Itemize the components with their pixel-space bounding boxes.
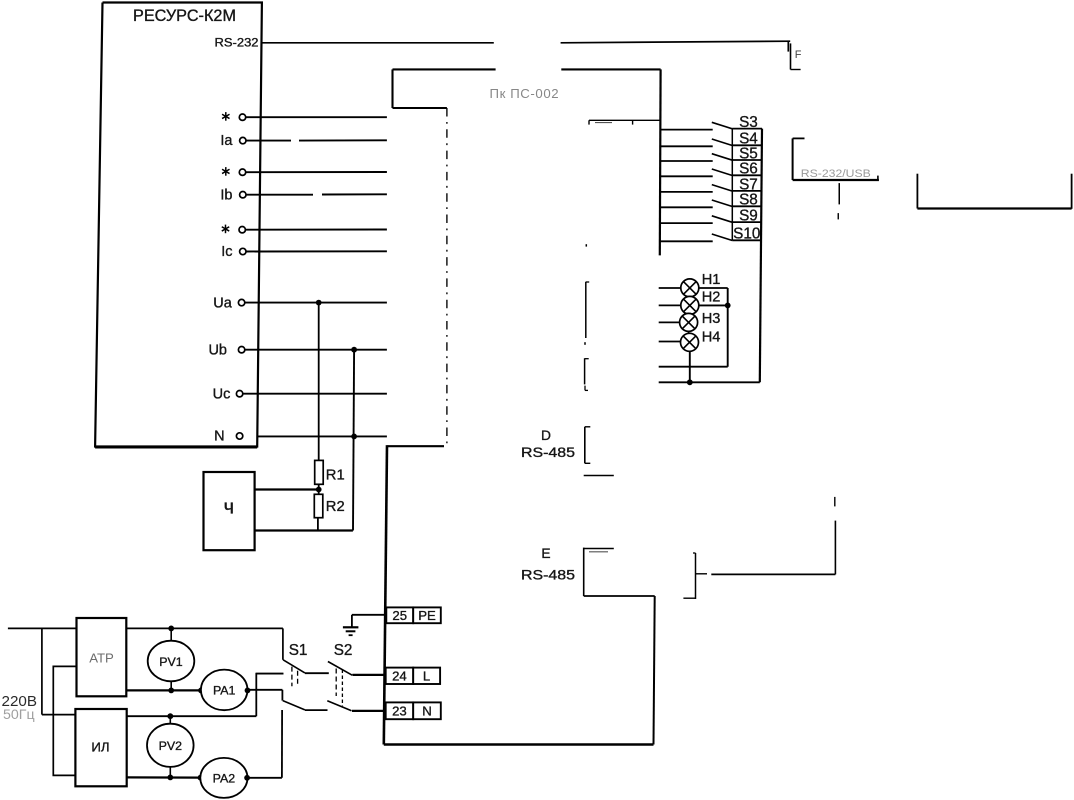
wire riser x=835 [834,497,837,575]
switch S3 [661,114,763,131]
node PA1 right [245,688,251,694]
svg-text:S6: S6 [739,161,758,178]
switch S9 [661,206,763,224]
pin Ib [220,188,246,204]
wire lamp return lower [659,381,760,383]
svg-text:RS-232/USB: RS-232/USB [801,168,871,180]
pin * (Ic marked) [222,225,246,234]
svg-text:L: L [423,669,430,684]
switch S1 [256,628,329,710]
wire lamp H3 feed [659,321,680,323]
wire S2 to N terminal [352,710,386,712]
svg-text:E: E [541,546,550,561]
wire lamp H1 feed [659,287,681,289]
voltmeter PV2 [147,716,194,777]
svg-text:24: 24 [392,669,407,684]
svg-text:H4: H4 [702,330,721,346]
net 220В 50Гц [2,693,37,723]
wire H4 down [687,351,693,385]
device open box (PC, outline partial) [917,174,1071,209]
resistor R2 [314,494,344,517]
wire lamp return upper [659,366,728,368]
svg-text:H3: H3 [702,311,721,327]
wire H3-H4 link [688,331,690,333]
wire Ia [246,139,387,141]
lamp H2 [681,289,721,314]
svg-text:PV2: PV2 [159,739,183,753]
device ИЛ (load) [75,709,126,786]
pin Ub [208,343,244,359]
svg-text:РЕСУРС-К2М: РЕСУРС-К2М [133,7,236,25]
device A1 РЕСУРС-К2М (meter under test) [95,3,262,448]
svg-text:Пк ПС-002: Пк ПС-002 [490,86,560,101]
wire RS-232 [262,41,790,43]
voltmeter PV1 [148,628,195,690]
switch S8 [661,191,763,209]
wire S2 to L terminal [352,674,385,676]
svg-text:25: 25 [392,608,407,623]
wire stub under D [584,475,614,477]
node Ub-rail junction [351,347,357,353]
wire R2 bottom [317,518,319,531]
wire Ic [246,250,387,252]
terminal 24 L [386,668,440,684]
wire ИЛ bottom output [127,776,201,778]
lamp H4 [681,330,721,352]
wire Ua [245,302,387,304]
pin N [214,429,243,445]
svg-text:Ia: Ia [220,133,233,149]
wire S1 left branch [256,674,283,717]
svg-text:S2: S2 [334,642,353,659]
svg-text:D: D [541,428,551,443]
connector bracket right of E [683,553,707,599]
switch S5 [661,145,763,162]
wire switch common bus [760,129,762,383]
switch S7 [661,175,763,193]
node Ua-R1 junction [316,300,322,306]
pin Ic [221,244,246,260]
pin * (Ib marked) [222,167,246,176]
node R1-R2 junction [316,484,322,494]
svg-text:S3: S3 [739,114,758,131]
svg-text:S10: S10 [733,226,760,243]
svg-text:Ib: Ib [220,188,232,204]
partition dash line x=447 [446,108,448,445]
svg-text:H2: H2 [702,289,721,305]
connector E RS-485 [521,546,614,596]
node PA1 left [198,688,204,694]
ground [343,615,386,635]
switch S6 [661,160,763,178]
wire Ub [245,349,387,351]
svg-text:S8: S8 [739,192,758,209]
wire N [258,435,387,437]
wire Ч to R1R2 junction [255,488,319,490]
wire current *c [246,229,387,231]
wire rail B [53,666,76,775]
node PA2 left [198,775,204,781]
svg-text:Ua: Ua [213,295,232,311]
switch S2 [327,642,352,711]
device АТР (autotransformer) [77,618,127,696]
node PA2 right [244,775,250,781]
pin Ia [220,133,246,149]
svg-text:F: F [795,49,802,61]
svg-text:S1: S1 [289,642,308,659]
wire E to box bottom [584,595,655,597]
node PV2 bottom [167,775,173,781]
lamp H3 [680,311,721,332]
wire PA1 to S1 [248,690,283,701]
label RS-232 port [215,36,259,49]
pin Ua [213,295,245,311]
partition dash line x=586 [585,244,590,390]
svg-text:ч: ч [224,497,234,519]
wire rail A [42,628,76,714]
wire supply top [8,627,283,629]
svg-text:Ub: Ub [208,343,227,359]
wire Ч bottom to rail [255,529,353,531]
wire АТР output [126,689,201,691]
svg-text:N: N [214,429,224,445]
svg-text:50Гц: 50Гц [3,707,35,723]
svg-text:PA2: PA2 [213,772,236,786]
wire lamp H4 feed [659,341,681,343]
wire current *a [246,116,387,118]
svg-text:RS-232: RS-232 [215,36,259,49]
connector D RS-485 [521,427,590,464]
wire current *b [246,171,387,173]
svg-text:Uc: Uc [213,387,231,403]
wire rail Ub down [353,350,354,531]
terminal 25 PE [386,607,441,623]
resistor R1 [315,460,345,484]
svg-text:RS-485: RS-485 [521,568,575,583]
wire adapter output stub [838,183,839,219]
node PV1 bottom [168,688,174,694]
wire Uc [243,393,387,395]
connector F (RS-232) [788,41,802,70]
device RS-232/USB adapter [793,138,879,181]
pin Uc [213,387,243,403]
switch S4 [661,129,763,148]
svg-text:H1: H1 [702,272,721,288]
ammeter PA2 [200,758,247,798]
svg-text:S9: S9 [739,208,758,225]
wire PA2 to S1 [247,710,282,778]
ammeter PA1 [201,670,248,711]
pin * (Ia marked) [222,112,246,121]
svg-text:PA1: PA1 [213,684,236,698]
svg-text:23: 23 [392,704,407,719]
svg-text:R2: R2 [326,499,345,515]
wire ИЛ top output [127,715,257,717]
device A2 ПК ПС-002 (calibrator box outline) [384,69,661,744]
svg-text:N: N [422,704,432,719]
wire lamp H2 feed [659,304,681,306]
svg-text:RS-485: RS-485 [521,445,575,460]
svg-text:ИЛ: ИЛ [91,740,109,755]
lamp H1 [681,272,721,297]
switch S10 [661,222,763,243]
svg-text:АТР: АТР [89,651,114,666]
partition dash line y=120 [589,120,660,124]
wire Ua to R1 [318,303,320,461]
svg-text:R1: R1 [326,468,345,484]
svg-text:Ic: Ic [221,244,232,260]
svg-text:PV1: PV1 [159,655,183,669]
svg-text:PE: PE [418,608,436,623]
wire E interface to right [711,573,835,575]
node PV1 top [168,626,174,632]
wire H1-H2 collector [699,288,731,367]
terminal 23 N [386,702,441,719]
node N-rail junction [351,434,357,440]
device Ч (frequency meter) [204,472,255,550]
node PV2 top [167,713,173,719]
wire Ib [246,193,387,195]
